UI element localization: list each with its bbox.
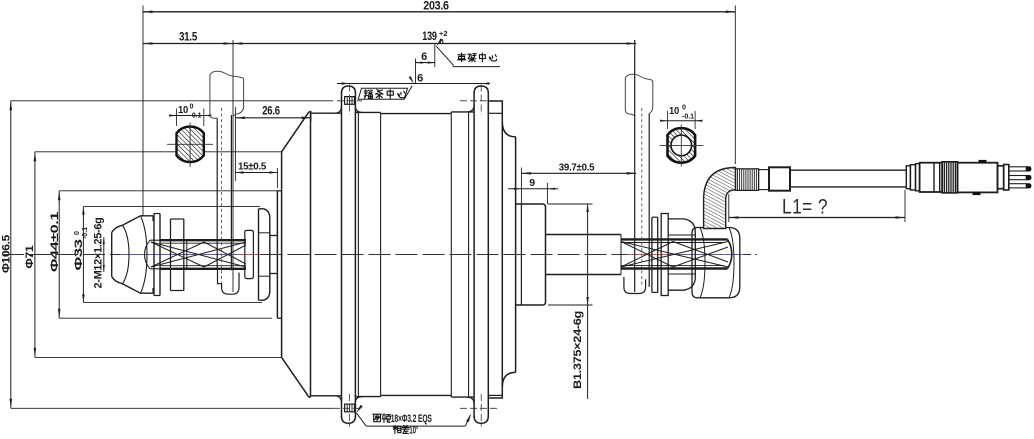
left cover Φ71 face [281, 152, 283, 358]
left axle step [270, 235, 278, 237]
ear centerline bottom-right [460, 407, 499, 409]
dim 10-0.1 right axle flats [660, 120, 702, 122]
dim L1 cable length [729, 217, 905, 219]
cable heat-shrink band [769, 167, 790, 190]
svg-text:18×Φ3.2 EQS: 18×Φ3.2 EQS [391, 413, 432, 425]
ear centerline top-right [460, 100, 499, 102]
dim 139 +2/0 [233, 43, 636, 45]
left thread crossing pattern [151, 242, 246, 267]
svg-text:10: 10 [669, 105, 679, 117]
red centerline left [239, 254, 261, 256]
dim 6 spoke-to-frame offset [416, 62, 435, 64]
svg-text:Φ106.5: Φ106.5 [1, 235, 13, 273]
shell between flanges [355, 111, 380, 113]
right dropout centerline [641, 108, 643, 286]
shell top/bottom left of flange [311, 112, 342, 114]
dim 39.7±0.5 [521, 172, 636, 174]
left washer B [170, 219, 172, 291]
frame-centre leader 车架中心 [436, 38, 443, 46]
left dropout centerline [221, 108, 223, 284]
cable gland nut [692, 228, 740, 298]
left spoke hole bottom (hatched) [345, 404, 355, 412]
dim 10-0.1 left axle flats [170, 115, 211, 117]
connector strain relief steps [906, 166, 910, 189]
connector barrel [920, 163, 943, 192]
left flange ear bottom [342, 416, 356, 423]
svg-text:10: 10 [178, 104, 188, 116]
cable corrugated sleeve [736, 169, 759, 191]
right thread crossing pattern [621, 242, 728, 268]
right dropout plate [634, 40, 636, 292]
right flange ear bottom [474, 416, 488, 423]
left acorn nut [111, 233, 113, 277]
svg-text:26.6: 26.6 [262, 106, 280, 118]
left brake boss Φ44 [276, 191, 278, 318]
right axle cross-section hatched ring [668, 128, 696, 163]
dim 203.6 overall length [143, 11, 735, 13]
right axle shaft [546, 234, 622, 236]
freewheel boss B1.375 [516, 204, 546, 305]
svg-text:6: 6 [417, 72, 423, 84]
left cover taper [282, 112, 309, 152]
dim Φ106.5 [10, 101, 12, 409]
svg-text:9: 9 [529, 177, 535, 189]
svg-text:139: 139 [422, 31, 437, 43]
frame centre line [434, 44, 436, 68]
spoke hole leader banner [356, 405, 363, 413]
svg-text:L1= ?: L1= ? [782, 196, 828, 219]
left axle section circle (hatched) [177, 127, 204, 163]
dim 15±0.5 [235, 172, 277, 174]
svg-text:0: 0 [190, 104, 194, 111]
svg-text:6: 6 [421, 51, 427, 63]
left spoke hole top (hatched) [345, 97, 355, 105]
right cover shoulder arcs [502, 122, 515, 137]
blue centerline left thread [120, 254, 239, 256]
left dropout foot [218, 270, 240, 294]
svg-text:-0.1: -0.1 [82, 227, 89, 239]
cover seam lines [357, 112, 359, 396]
spoke-centre leader 辐条中心 [358, 88, 407, 99]
connector end cap [998, 166, 1004, 189]
svg-text:39.7±0.5: 39.7±0.5 [559, 161, 595, 173]
cable elbow boot hatched [704, 168, 736, 229]
dim 2-M12x1.25-6g [103, 237, 105, 272]
left tab washer [245, 230, 254, 238]
right dropout foot [624, 277, 646, 294]
svg-text:31.5: 31.5 [179, 32, 198, 44]
dim Φ71 [34, 152, 36, 358]
svg-text:Φ71: Φ71 [24, 245, 36, 268]
left cover outer face [309, 112, 311, 398]
svg-text:203.6: 203.6 [423, 1, 449, 13]
right flange nut [661, 214, 668, 296]
dim 26.6 [235, 117, 311, 119]
svg-text:0: 0 [74, 231, 81, 235]
svg-text:B1.375×24-6g: B1.375×24-6g [572, 311, 584, 389]
left circle crosshair [167, 143, 213, 145]
svg-text:Φ44±0.1: Φ44±0.1 [49, 212, 61, 272]
connector key bumps [979, 160, 987, 163]
flange base fillets [335, 106, 342, 113]
dim 31.5 [143, 43, 233, 45]
dim Φ33 0/-0.1 [82, 207, 84, 303]
dim 9 boss width [508, 188, 558, 190]
dim 46 flange spacing [337, 83, 490, 85]
ear centerline bottom-left [333, 407, 362, 409]
svg-text:0: 0 [682, 105, 686, 112]
dim B1.375x24-6g freewheel thread [587, 204, 589, 399]
connector pins [1009, 167, 1026, 171]
right dropout blade tube [625, 74, 653, 109]
svg-text:-0.1: -0.1 [682, 113, 694, 120]
right ring crosshair [660, 144, 704, 146]
cable smooth sleeve [759, 170, 769, 190]
svg-text:-0.1: -0.1 [190, 112, 202, 119]
cable to connector [790, 169, 906, 171]
red centerline right [627, 254, 670, 256]
left axle thread M12 [145, 240, 151, 269]
right axle thread M12 [621, 238, 728, 240]
left dropout plate [216, 118, 218, 270]
right cover outer face [515, 137, 517, 373]
left spoke flange tube [341, 92, 343, 417]
left locknut [258, 209, 260, 300]
right flange ear top [474, 86, 488, 93]
svg-text:2-M12×1.25-6g: 2-M12×1.25-6g [93, 218, 105, 289]
right washer [651, 217, 653, 292]
left flange ear top [342, 86, 356, 93]
ear centerline top-left [337, 100, 362, 102]
main axis centerline [2, 254, 120, 256]
connector body [958, 163, 998, 193]
left dropout blade tube [210, 71, 244, 114]
left washer A [153, 214, 155, 296]
svg-text:10°: 10° [409, 425, 418, 437]
right brake disc flange [488, 101, 502, 398]
connector ribbed collar [942, 162, 957, 193]
dim Φ44±0.1 [58, 191, 60, 318]
svg-text:15±0.5: 15±0.5 [238, 161, 266, 173]
connector pin block [1004, 165, 1009, 191]
right spoke flange tube [473, 92, 475, 417]
blue centerline right [670, 254, 743, 256]
